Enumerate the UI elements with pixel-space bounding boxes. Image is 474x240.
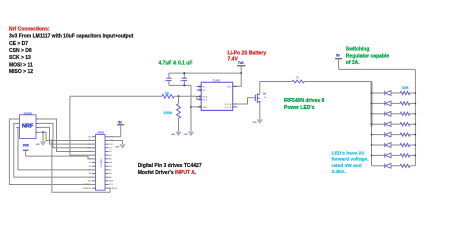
pin nano right — [105, 161, 109, 163]
svg-text:GND: GND — [252, 122, 257, 124]
op-amp U1 TC4427 mosfet driver — [201, 82, 233, 110]
svg-text:A5: A5 — [109, 158, 111, 161]
svg-text:Mosfet Driver's INPUT A.: Mosfet Driver's INPUT A. — [138, 170, 197, 176]
svg-text:D10: D10 — [88, 181, 91, 183]
svg-text:NC: NC — [203, 87, 207, 89]
wire: source — [259, 102, 261, 120]
power 5v regulator — [335, 58, 342, 60]
pin nano left — [92, 173, 96, 175]
resistor row 7 — [400, 154, 410, 157]
LED D6 row — [372, 144, 385, 146]
junction — [178, 95, 180, 97]
svg-text:GND: GND — [115, 147, 120, 149]
wire: LED cathode bus thick — [371, 82, 373, 127]
pin nano left — [92, 136, 96, 138]
wire: 5v to VIN — [109, 125, 121, 137]
junction cap bottom — [183, 84, 185, 86]
wire: D3 signal — [70, 95, 162, 97]
wire: nrf L3 loop — [18, 127, 96, 169]
svg-text:D6: D6 — [89, 166, 91, 168]
svg-text:of 3A.: of 3A. — [346, 60, 361, 66]
svg-text:4.7uF & 0.1 uF: 4.7uF & 0.1 uF — [159, 61, 193, 67]
pin nano right — [105, 184, 109, 186]
pin VDD — [233, 85, 238, 87]
svg-text:A0: A0 — [109, 176, 111, 179]
svg-text:forward voltage,: forward voltage, — [332, 157, 370, 163]
svg-text:NRF: NRF — [22, 123, 34, 129]
wire: nano gnd — [109, 140, 123, 144]
module ARD1 Arduino Nano — [96, 135, 106, 191]
svg-text:A7: A7 — [109, 150, 111, 153]
svg-text:D13/SCK: D13/SCK — [109, 188, 118, 190]
pin nano left — [92, 184, 96, 186]
wire: nrf R1 — [39, 119, 95, 151]
wire: 3v3 supply — [26, 156, 96, 159]
ground (source) — [257, 119, 262, 123]
svg-text:A6: A6 — [109, 154, 111, 157]
svg-text:OUT_B: OUT_B — [224, 107, 232, 109]
junction ic gnd — [190, 106, 192, 108]
pin nano right — [105, 150, 109, 152]
pin nano left — [92, 158, 96, 160]
capacitor C1 0.1uF — [183, 73, 185, 78]
wire: VDD feed — [233, 73, 242, 86]
pin nano left — [92, 187, 96, 189]
pin nano left — [92, 150, 96, 152]
LED D7 row — [372, 154, 385, 156]
pin nano right — [105, 143, 109, 145]
resistor row 8 — [400, 164, 410, 167]
pin nano left — [92, 176, 96, 178]
svg-text:rated 3W and: rated 3W and — [332, 163, 362, 169]
svg-text:3v3 From LM1117 with 10uF capa: 3v3 From LM1117 with 10uF capacitors inp… — [9, 34, 134, 40]
resistor row 3 — [400, 112, 410, 115]
wire: nrf R3 — [39, 127, 95, 144]
svg-text:5v: 5v — [118, 120, 122, 124]
power 5v nano — [117, 124, 124, 126]
LED D2 row — [372, 102, 385, 104]
resistor row 1 — [400, 91, 410, 94]
svg-text:IN_B: IN_B — [203, 99, 208, 101]
pin nano right — [105, 139, 109, 141]
pin nrf left — [16, 118, 19, 120]
LED D8 row — [372, 165, 385, 167]
pin nano left — [92, 180, 96, 182]
wire: GND pin — [191, 106, 197, 108]
wire: nrf L1 loop — [9, 119, 95, 185]
LED D4 row — [372, 123, 385, 125]
resistor row 4 — [400, 123, 410, 126]
svg-text:MOSI > 11: MOSI > 11 — [9, 62, 33, 68]
pin nano left — [92, 165, 96, 167]
junction cap top — [183, 72, 185, 74]
resistor row 6 — [400, 143, 410, 146]
ground (nano) — [120, 144, 125, 148]
pin nano right — [105, 169, 109, 171]
svg-text:ARD1: ARD1 — [97, 131, 105, 135]
svg-text:A1: A1 — [109, 172, 111, 175]
junction — [240, 72, 242, 74]
ground (nrf) — [40, 141, 45, 145]
svg-text:GND: GND — [36, 144, 41, 146]
svg-text:GND: GND — [171, 134, 176, 136]
svg-text:Switching: Switching — [346, 46, 370, 52]
LED D1 row — [372, 92, 385, 94]
svg-text:Nrf Connections:: Nrf Connections: — [9, 26, 50, 32]
svg-text:RADIO: RADIO — [24, 111, 33, 115]
resistor row 5 — [400, 133, 410, 136]
svg-text:10R: 10R — [402, 86, 409, 90]
wire: LED cathode bus — [371, 127, 373, 166]
resistor R2 100k — [177, 104, 181, 119]
svg-text:GND: GND — [184, 134, 189, 136]
pin nano right — [105, 154, 109, 156]
wire: IN_A/IN_B tie — [196, 96, 198, 99]
ground (100k) — [176, 132, 181, 136]
svg-text:Power LED's: Power LED's — [284, 105, 315, 111]
LED D3 row — [372, 113, 385, 115]
svg-text:TC4427: TC4427 — [212, 80, 221, 83]
pin OUT_A — [233, 103, 238, 105]
pin nano right — [105, 147, 109, 149]
svg-text:Digital Pin 3 drives TC4427: Digital Pin 3 drives TC4427 — [138, 163, 202, 169]
capacitor C2 4.7uF — [168, 73, 170, 78]
junction nrf gnd — [42, 131, 44, 133]
resistor row 2 — [400, 102, 410, 105]
pin nrf right — [36, 118, 39, 120]
pin nano left — [92, 154, 96, 156]
svg-text:100k: 100k — [163, 110, 172, 115]
wire: cap gnd rail — [169, 84, 191, 86]
svg-text:A2: A2 — [109, 169, 111, 172]
svg-text:MISO > 12: MISO > 12 — [9, 69, 33, 75]
svg-text:5v: 5v — [336, 54, 340, 58]
wire: gate drive OUT_A — [237, 98, 255, 104]
svg-text:D12/MISO: D12/MISO — [82, 188, 91, 190]
wire: 5v to resistor bus — [339, 68, 416, 70]
pin GND — [197, 106, 202, 108]
pin nano right — [105, 187, 109, 189]
wire: 7.4V rail — [169, 72, 241, 74]
wire — [178, 118, 180, 131]
svg-text:3V3: 3V3 — [23, 144, 29, 148]
svg-text:SCK > 13: SCK > 13 — [9, 55, 31, 61]
wire: drain rail — [260, 81, 292, 83]
wire: nrf L2 loop — [14, 123, 96, 177]
wire: nrf R4 — [39, 132, 95, 140]
wire: nrf gnd — [42, 132, 44, 141]
pin OUT_B — [233, 106, 238, 108]
pin nrf right — [36, 131, 39, 133]
wire — [178, 96, 180, 103]
pin nano right — [105, 165, 109, 167]
svg-text:TX1: TX1 — [88, 137, 91, 139]
svg-text:VDD: VDD — [227, 86, 232, 88]
svg-text:NANO1: NANO1 — [99, 159, 102, 167]
pin nano right — [105, 158, 109, 160]
wire: drain — [259, 82, 261, 95]
transistor Q1 IRF540N — [254, 95, 256, 102]
wire: nrf R2 — [39, 123, 95, 147]
wire: gnd drop — [190, 85, 192, 131]
wire: resistor bus — [414, 69, 416, 165]
pin IN_B — [197, 98, 202, 100]
pin nano left — [92, 147, 96, 149]
power 7v4 battery — [237, 65, 245, 67]
svg-text:7.4V: 7.4V — [228, 56, 239, 62]
svg-text:A3: A3 — [109, 165, 111, 168]
svg-text:LED's have 2V: LED's have 2V — [332, 150, 366, 156]
svg-text:IRF540N drives 8: IRF540N drives 8 — [284, 98, 325, 104]
ground (caps/IC) — [188, 132, 193, 136]
pin IN_A — [197, 95, 202, 97]
wire — [174, 95, 197, 97]
pin nano right — [105, 173, 109, 175]
svg-text:GND: GND — [203, 107, 208, 109]
svg-text:3V3: 3V3 — [109, 184, 112, 186]
svg-text:CSN > D8: CSN > D8 — [9, 48, 32, 54]
LED D5 row — [372, 134, 385, 136]
pin nrf left — [16, 126, 19, 128]
svg-text:D5: D5 — [89, 162, 91, 164]
svg-text:0.35A.: 0.35A. — [332, 169, 346, 175]
pin nrf left — [16, 122, 19, 124]
svg-text:CE > D7: CE > D7 — [9, 41, 28, 47]
pin nano right — [105, 136, 109, 138]
pin NC — [197, 86, 202, 88]
module NRF radio — [20, 115, 37, 139]
pin nano left — [92, 139, 96, 141]
svg-text:D8: D8 — [89, 173, 91, 175]
svg-text:7v4: 7v4 — [238, 61, 244, 65]
pin nano left — [92, 169, 96, 171]
resistor R1 1k — [162, 94, 174, 98]
pin nano left — [92, 161, 96, 163]
pin nano right — [105, 176, 109, 178]
wire: below nano loop — [52, 140, 110, 193]
pin nano right — [105, 180, 109, 182]
svg-text:OUT_A: OUT_A — [224, 103, 232, 106]
wire: D3 from main — [70, 96, 96, 155]
pin nano left — [92, 143, 96, 145]
svg-text:A4: A4 — [109, 161, 111, 164]
svg-text:IN_A: IN_A — [203, 95, 208, 98]
pin NC — [197, 89, 202, 91]
svg-text:Regulator capable: Regulator capable — [346, 54, 390, 60]
fuse F1 — [292, 80, 305, 83]
pin nrf right — [36, 126, 39, 128]
wire: drain rail to bus — [305, 81, 372, 83]
svg-text:NC: NC — [203, 90, 207, 92]
pin nrf right — [36, 122, 39, 124]
power 3V3 — [23, 149, 29, 151]
svg-text:1k: 1k — [264, 97, 266, 99]
